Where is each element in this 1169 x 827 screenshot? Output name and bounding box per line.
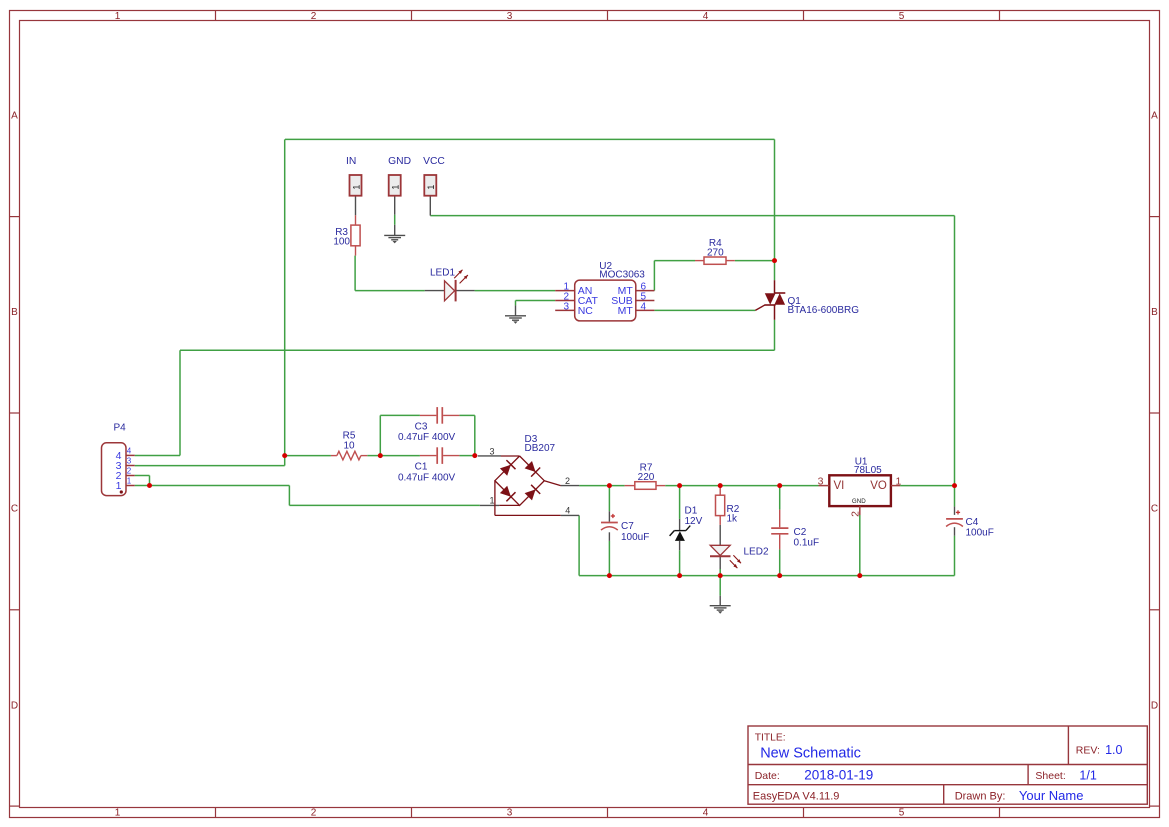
svg-text:1: 1 xyxy=(391,185,401,190)
svg-text:4: 4 xyxy=(127,447,132,456)
svg-text:5: 5 xyxy=(899,808,905,819)
svg-text:2: 2 xyxy=(127,467,132,476)
svg-text:100: 100 xyxy=(333,237,350,248)
svg-text:4: 4 xyxy=(703,808,709,819)
svg-text:VI: VI xyxy=(834,480,845,492)
svg-text:1.0: 1.0 xyxy=(1105,743,1122,757)
svg-text:C1: C1 xyxy=(415,462,428,473)
svg-text:MT: MT xyxy=(618,305,634,317)
svg-text:C7: C7 xyxy=(621,521,634,532)
svg-text:2: 2 xyxy=(565,476,570,486)
svg-text:270: 270 xyxy=(707,247,724,258)
svg-text:1: 1 xyxy=(116,480,122,492)
svg-text:B: B xyxy=(1151,307,1158,318)
svg-text:1: 1 xyxy=(115,11,121,22)
svg-text:LED2: LED2 xyxy=(744,547,769,558)
svg-text:220: 220 xyxy=(638,472,655,483)
svg-text:2: 2 xyxy=(311,11,317,22)
svg-text:3: 3 xyxy=(127,457,132,466)
svg-text:D: D xyxy=(11,701,18,712)
svg-text:2018-01-19: 2018-01-19 xyxy=(804,767,873,782)
svg-text:MOC3063: MOC3063 xyxy=(599,270,645,281)
svg-text:C: C xyxy=(11,503,18,514)
svg-text:REV:: REV: xyxy=(1076,745,1100,757)
svg-text:C: C xyxy=(1151,503,1158,514)
svg-text:1/1: 1/1 xyxy=(1079,768,1096,782)
svg-text:1: 1 xyxy=(127,477,132,486)
svg-text:0.47uF 400V: 0.47uF 400V xyxy=(398,473,456,484)
svg-text:P4: P4 xyxy=(114,422,127,433)
svg-text:4: 4 xyxy=(641,301,647,312)
svg-text:DB207: DB207 xyxy=(525,443,556,454)
svg-text:1: 1 xyxy=(896,475,902,487)
svg-text:1k: 1k xyxy=(727,513,739,524)
svg-text:12V: 12V xyxy=(685,516,703,527)
svg-text:TITLE:: TITLE: xyxy=(755,733,786,744)
svg-text:Date:: Date: xyxy=(755,770,780,782)
svg-text:3: 3 xyxy=(563,301,569,312)
svg-text:2: 2 xyxy=(311,808,317,819)
svg-text:BTA16-600BRG: BTA16-600BRG xyxy=(788,305,860,316)
svg-text:1: 1 xyxy=(115,808,121,819)
svg-text:GND: GND xyxy=(852,498,866,505)
svg-text:100uF: 100uF xyxy=(966,528,994,539)
svg-text:D: D xyxy=(1151,701,1158,712)
svg-text:0.1uF: 0.1uF xyxy=(794,537,820,548)
svg-text:VO: VO xyxy=(870,480,887,492)
svg-text:B: B xyxy=(11,307,18,318)
svg-text:Sheet:: Sheet: xyxy=(1035,770,1065,782)
svg-text:1: 1 xyxy=(489,496,494,506)
svg-text:100uF: 100uF xyxy=(621,532,649,543)
svg-text:0.47uF 400V: 0.47uF 400V xyxy=(398,432,456,443)
svg-text:3: 3 xyxy=(507,808,513,819)
svg-text:5: 5 xyxy=(899,11,905,22)
svg-text:A: A xyxy=(1151,111,1158,122)
svg-text:NC: NC xyxy=(578,305,594,317)
svg-text:C3: C3 xyxy=(415,421,428,432)
svg-text:78L05: 78L05 xyxy=(854,465,882,476)
svg-text:4: 4 xyxy=(565,505,570,515)
svg-text:1: 1 xyxy=(351,185,361,190)
svg-text:EasyEDA V4.11.9: EasyEDA V4.11.9 xyxy=(753,790,840,802)
svg-text:3: 3 xyxy=(489,446,494,456)
svg-text:4: 4 xyxy=(703,11,709,22)
svg-text:IN: IN xyxy=(346,156,356,167)
svg-text:New Schematic: New Schematic xyxy=(760,746,861,762)
svg-text:Your Name: Your Name xyxy=(1019,788,1084,803)
svg-text:Drawn By:: Drawn By: xyxy=(955,790,1006,802)
svg-text:10: 10 xyxy=(343,440,355,451)
svg-text:1: 1 xyxy=(426,185,436,190)
svg-text:LED1: LED1 xyxy=(430,267,455,278)
svg-text:VCC: VCC xyxy=(423,156,445,167)
svg-text:2: 2 xyxy=(850,511,862,517)
svg-text:3: 3 xyxy=(818,475,824,487)
svg-text:GND: GND xyxy=(388,156,411,167)
svg-text:A: A xyxy=(11,111,18,122)
svg-text:3: 3 xyxy=(507,11,513,22)
